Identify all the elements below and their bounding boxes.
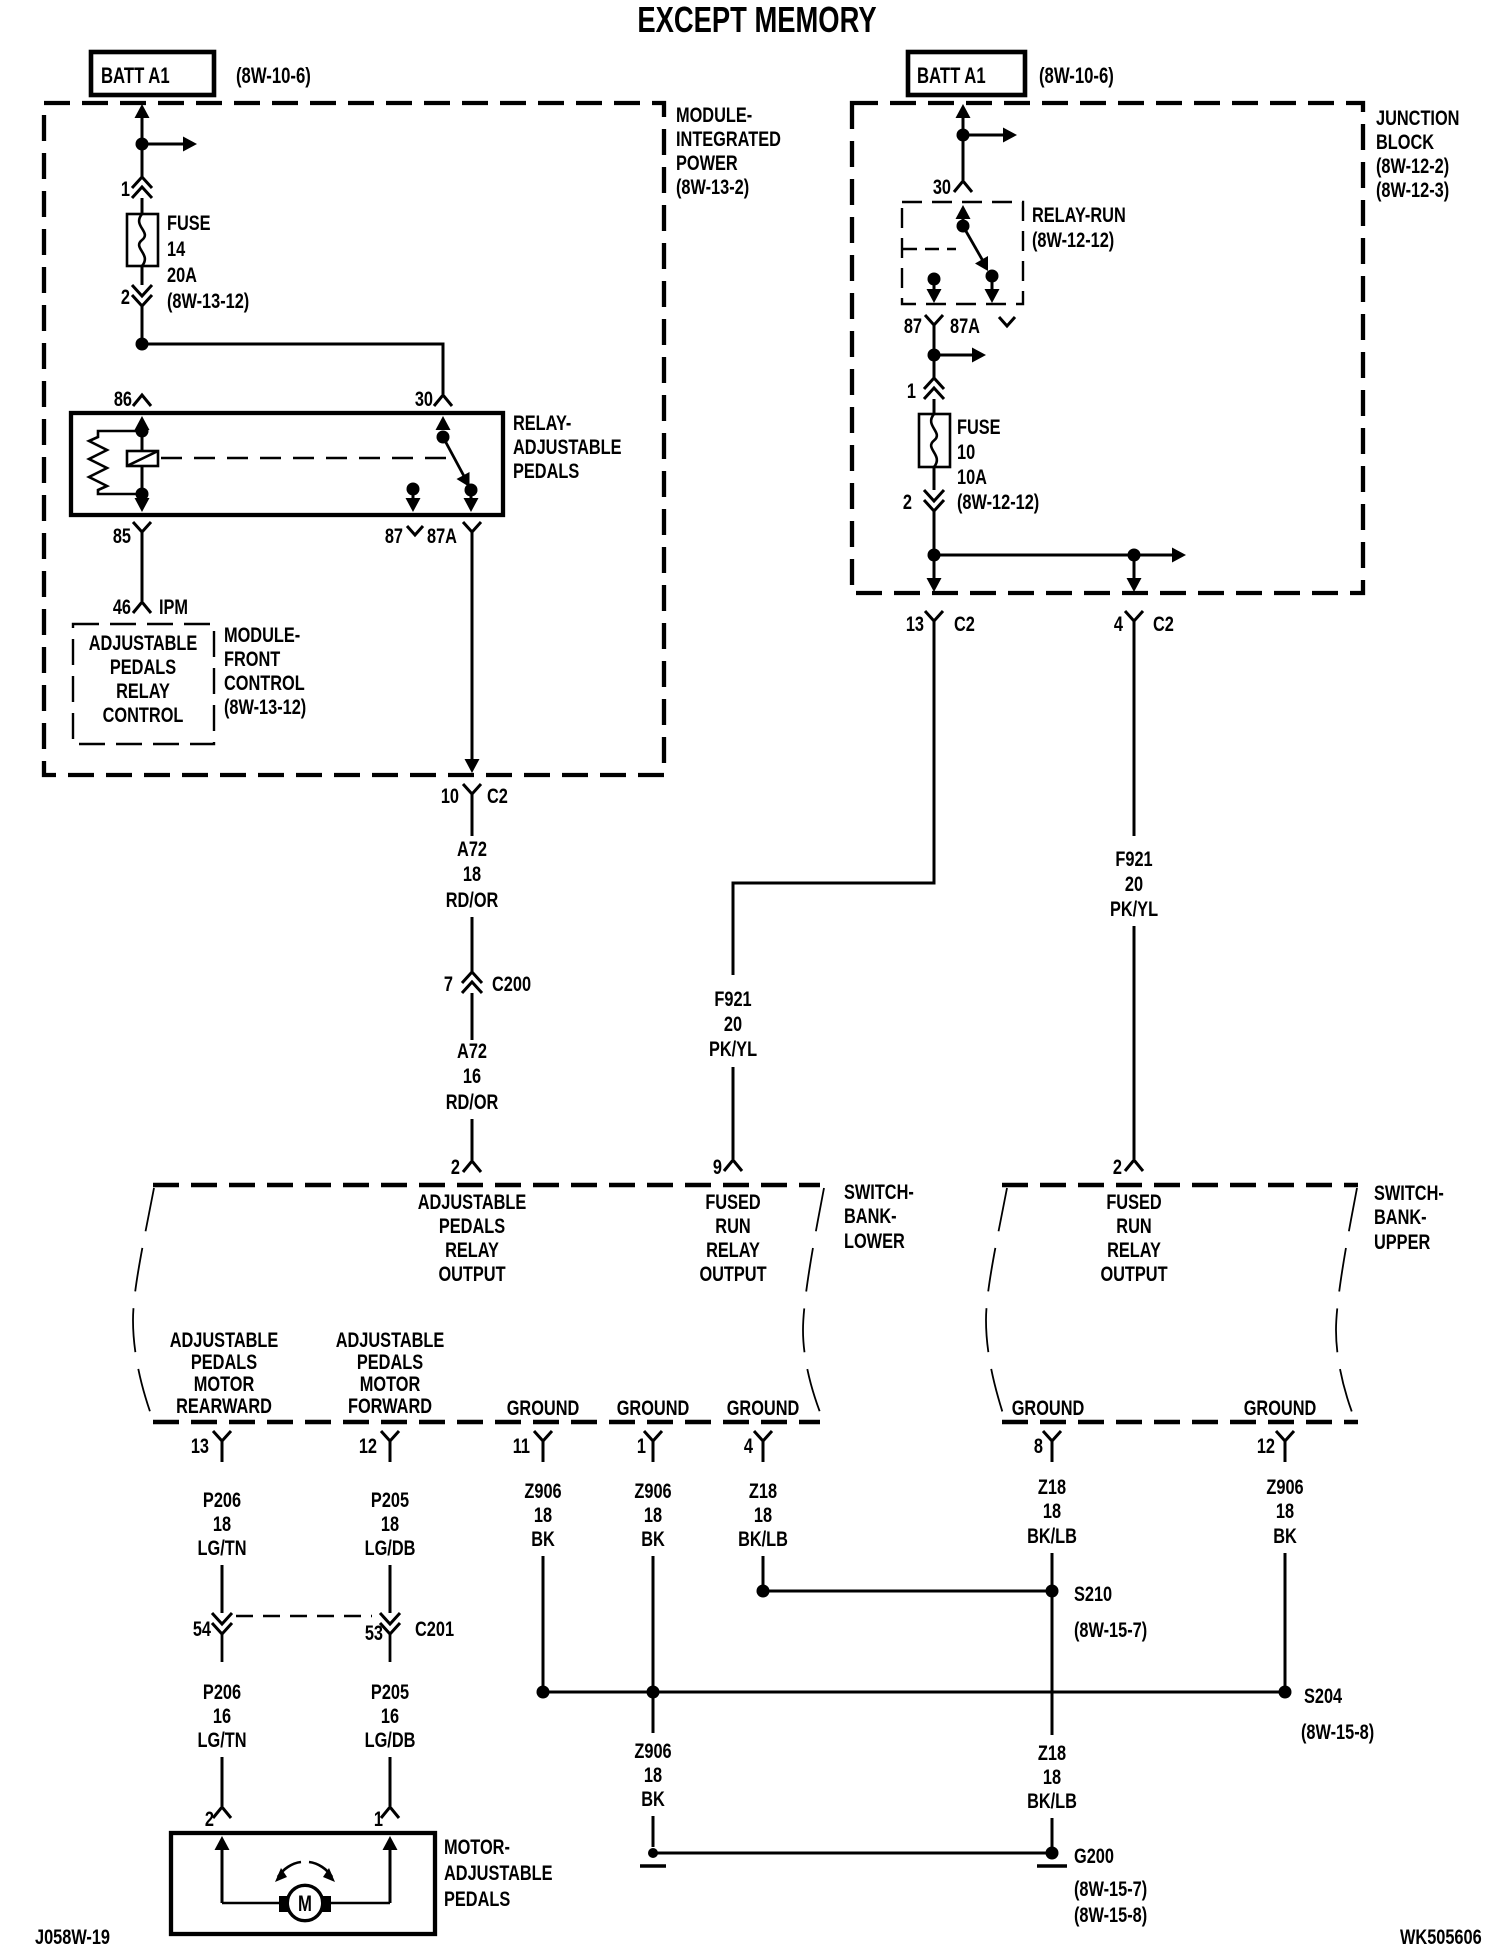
svg-text:53: 53 (365, 1622, 383, 1646)
relay pin 87 contact (407, 483, 420, 496)
svg-text:11: 11 (513, 1435, 531, 1459)
svg-text:16: 16 (463, 1065, 481, 1089)
arrow: feed continues right (1134, 554, 1173, 557)
svg-text:FUSED: FUSED (705, 1191, 760, 1215)
wire: battery feed A1 (right) with up arrow (956, 104, 971, 118)
arrow: feed continues right (fused run) (934, 354, 973, 357)
svg-text:(8W-12-3): (8W-12-3) (1376, 179, 1449, 203)
fuse 10 (JB) (919, 414, 950, 467)
svg-text:30: 30 (933, 176, 951, 200)
switch-bank-lower dashed box (153, 1183, 820, 1188)
svg-text:MOTOR: MOTOR (360, 1373, 421, 1397)
junction on right feed (957, 129, 970, 142)
svg-text:RELAY: RELAY (445, 1239, 499, 1263)
relay-run coil dashed stub (903, 248, 956, 250)
svg-text:BLOCK: BLOCK (1376, 131, 1434, 155)
svg-text:RELAY: RELAY (116, 680, 170, 704)
wire down with arrow (4 C2) (1133, 555, 1136, 579)
svg-text:BANK-: BANK- (1374, 1206, 1427, 1230)
svg-text:J058W-19: J058W-19 (35, 1926, 110, 1950)
svg-text:(8W-15-8): (8W-15-8) (1301, 1721, 1374, 1745)
svg-text:FRONT: FRONT (224, 648, 281, 672)
svg-text:87A: 87A (950, 315, 980, 339)
svg-text:30: 30 (415, 388, 433, 412)
svg-text:RD/OR: RD/OR (446, 1091, 499, 1115)
svg-text:2: 2 (205, 1808, 214, 1832)
svg-text:Z18: Z18 (749, 1480, 777, 1504)
svg-text:87: 87 (385, 525, 403, 549)
motor terminals (279, 1896, 288, 1912)
in-line connector 1 (JB fuse) (924, 378, 944, 389)
module-integrated power dashed box (44, 103, 664, 775)
svg-text:GROUND: GROUND (507, 1397, 580, 1421)
junction on left feed (136, 138, 149, 151)
svg-text:Z906: Z906 (634, 1480, 671, 1504)
svg-text:1: 1 (907, 380, 916, 404)
in-line connector 54 C201 (212, 1613, 232, 1624)
svg-text:1: 1 (121, 178, 130, 202)
svg-text:PK/YL: PK/YL (709, 1038, 757, 1062)
relay switch blade (443, 437, 465, 478)
svg-text:BK/LB: BK/LB (1027, 1525, 1077, 1549)
motor pin 1 arrow (383, 1836, 398, 1850)
pin 30 chevron (434, 395, 452, 406)
svg-text:(8W-12-12): (8W-12-12) (1032, 229, 1114, 253)
svg-text:(8W-10-6): (8W-10-6) (1039, 64, 1114, 89)
svg-text:13: 13 (906, 613, 924, 637)
svg-text:13: 13 (191, 1435, 209, 1459)
svg-text:MOTOR-: MOTOR- (444, 1836, 510, 1860)
pin 1 motor (381, 1807, 399, 1818)
svg-text:OUTPUT: OUTPUT (438, 1263, 505, 1287)
svg-text:2: 2 (903, 491, 912, 515)
svg-text:S204: S204 (1304, 1685, 1342, 1709)
arrow: feed continues right (963, 134, 1004, 137)
svg-text:FUSE: FUSE (167, 212, 211, 236)
switch-bank-upper dashed box (1002, 1183, 1358, 1188)
svg-text:ADJUSTABLE: ADJUSTABLE (444, 1862, 553, 1886)
svg-text:18: 18 (463, 863, 481, 887)
in-line connector 1 (IPM) (132, 177, 152, 188)
relay switch pin 30 (436, 416, 451, 430)
svg-text:18: 18 (1276, 1500, 1294, 1524)
svg-text:Z906: Z906 (634, 1740, 671, 1764)
svg-text:(8W-15-7): (8W-15-7) (1074, 1619, 1147, 1643)
svg-text:54: 54 (193, 1618, 211, 1642)
svg-text:LG/DB: LG/DB (365, 1537, 416, 1561)
svg-text:18: 18 (644, 1764, 662, 1788)
ground G200 line (653, 1852, 1052, 1855)
svg-text:ADJUSTABLE: ADJUSTABLE (170, 1329, 279, 1353)
wire F921 (13 C2 to switch-bank-lower pin 9) (733, 635, 934, 975)
wire 87A output down (471, 546, 474, 760)
svg-text:OUTPUT: OUTPUT (1100, 1263, 1167, 1287)
svg-text:BK: BK (641, 1788, 665, 1812)
svg-text:RELAY-RUN: RELAY-RUN (1032, 204, 1126, 228)
junction at 4 C2 drop (1128, 549, 1141, 562)
wire A72 16 RD/OR (471, 993, 474, 1040)
wire (141, 266, 144, 285)
svg-text:10: 10 (441, 785, 459, 809)
adjustable pedals relay control dashed box (73, 624, 214, 744)
svg-text:85: 85 (113, 525, 131, 549)
svg-text:IPM: IPM (159, 596, 188, 620)
svg-text:SWITCH-: SWITCH- (1374, 1182, 1444, 1206)
wires to motor (222, 1902, 281, 1905)
in-line connector 53 C201 (380, 1613, 400, 1624)
svg-text:18: 18 (644, 1504, 662, 1528)
svg-text:LG/DB: LG/DB (365, 1729, 416, 1753)
connector box BATT A1 (left) (91, 52, 214, 95)
svg-text:PEDALS: PEDALS (357, 1351, 423, 1375)
svg-text:(8W-15-7): (8W-15-7) (1074, 1878, 1147, 1902)
arrow: feed continues right (142, 143, 184, 146)
svg-text:LG/TN: LG/TN (198, 1729, 247, 1753)
svg-text:46: 46 (113, 596, 131, 620)
svg-text:Z18: Z18 (1038, 1476, 1066, 1500)
relay box RELAY-ADJUSTABLE PEDALS (71, 413, 503, 515)
svg-text:C200: C200 (492, 973, 531, 997)
svg-text:GROUND: GROUND (727, 1397, 800, 1421)
ground point G200 (1046, 1847, 1059, 1860)
svg-text:CONTROL: CONTROL (103, 704, 184, 728)
pin 2 switch-bank-upper (1125, 1160, 1143, 1171)
relay-run pin 87A (986, 270, 999, 283)
svg-text:PEDALS: PEDALS (444, 1888, 510, 1912)
svg-text:2: 2 (451, 1156, 460, 1180)
svg-text:8: 8 (1034, 1435, 1043, 1459)
svg-text:12: 12 (1257, 1435, 1275, 1459)
wire (141, 144, 144, 177)
svg-text:BATT A1: BATT A1 (101, 64, 170, 89)
in-line connector 7 C200 (462, 972, 482, 983)
svg-text:BK: BK (1273, 1525, 1297, 1549)
wire Z906 below S204 (652, 1692, 655, 1733)
svg-text:C2: C2 (487, 785, 508, 809)
svg-text:FORWARD: FORWARD (348, 1395, 432, 1419)
motor rotation arrows (278, 1862, 301, 1877)
svg-text:9: 9 (713, 1156, 722, 1180)
svg-text:ADJUSTABLE: ADJUSTABLE (418, 1191, 527, 1215)
svg-text:POWER: POWER (676, 152, 738, 176)
motor-adjustable pedals box (171, 1833, 435, 1934)
svg-text:(8W-12-12): (8W-12-12) (957, 491, 1039, 515)
svg-text:EXCEPT MEMORY: EXCEPT MEMORY (637, 0, 876, 40)
svg-text:RD/OR: RD/OR (446, 889, 499, 913)
svg-text:JUNCTION: JUNCTION (1376, 107, 1459, 131)
svg-text:18: 18 (754, 1504, 772, 1528)
splice S210 (763, 1590, 1052, 1593)
svg-text:BK/LB: BK/LB (1027, 1790, 1077, 1814)
junction to relay pins (136, 338, 149, 351)
svg-text:CONTROL: CONTROL (224, 672, 305, 696)
svg-text:BK/LB: BK/LB (738, 1528, 788, 1552)
svg-text:18: 18 (534, 1504, 552, 1528)
svg-text:S210: S210 (1074, 1583, 1112, 1607)
C201 dashed link (236, 1615, 372, 1617)
svg-text:GROUND: GROUND (617, 1397, 690, 1421)
wire (933, 467, 936, 490)
svg-text:7: 7 (444, 973, 453, 997)
svg-text:A72: A72 (457, 1040, 487, 1064)
svg-text:18: 18 (381, 1513, 399, 1537)
svg-text:WK505606: WK505606 (1400, 1926, 1482, 1950)
svg-text:14: 14 (167, 238, 185, 262)
svg-text:2: 2 (121, 286, 130, 310)
wire to pin 30 (142, 344, 443, 394)
svg-text:PEDALS: PEDALS (439, 1215, 505, 1239)
svg-text:FUSE: FUSE (957, 416, 1001, 440)
svg-text:1: 1 (374, 1808, 383, 1832)
svg-text:PEDALS: PEDALS (110, 656, 176, 680)
svg-text:20: 20 (724, 1013, 742, 1037)
svg-text:RUN: RUN (715, 1215, 750, 1239)
svg-text:20: 20 (1125, 873, 1143, 897)
pin 2 motor (213, 1807, 231, 1818)
wire F921 (4 C2 to switch-bank-upper pin 2) (1133, 635, 1136, 836)
svg-text:(8W-13-12): (8W-13-12) (167, 290, 249, 314)
relay pin 85 arrow (141, 494, 144, 499)
relay-run switch blade (963, 226, 983, 261)
relay-run dashed box (902, 202, 1023, 304)
svg-text:P206: P206 (203, 1489, 241, 1513)
wire across (934, 554, 1134, 557)
svg-text:GROUND: GROUND (1012, 1397, 1085, 1421)
wire (933, 399, 936, 414)
svg-text:87A: 87A (427, 525, 457, 549)
svg-text:INTEGRATED: INTEGRATED (676, 128, 781, 152)
junction fused run output (928, 549, 941, 562)
relay-run pin 30 arrow (956, 205, 971, 219)
svg-text:M: M (298, 1892, 312, 1917)
svg-text:PEDALS: PEDALS (191, 1351, 257, 1375)
wire A72 18 RD/OR (471, 808, 474, 836)
svg-text:(8W-15-8): (8W-15-8) (1074, 1904, 1147, 1928)
svg-text:ADJUSTABLE: ADJUSTABLE (89, 632, 198, 656)
svg-text:RELAY: RELAY (706, 1239, 760, 1263)
fuse 14 (IPM) (127, 214, 158, 266)
svg-text:1: 1 (637, 1435, 646, 1459)
motor M (287, 1885, 322, 1920)
splice S204 (543, 1691, 1285, 1694)
svg-text:SWITCH-: SWITCH- (844, 1181, 914, 1205)
svg-text:86: 86 (114, 388, 132, 412)
svg-text:OUTPUT: OUTPUT (699, 1263, 766, 1287)
svg-text:G200: G200 (1074, 1845, 1114, 1869)
relay coil element (127, 451, 158, 466)
svg-text:UPPER: UPPER (1374, 1231, 1430, 1255)
wire (962, 135, 965, 180)
svg-text:16: 16 (213, 1705, 231, 1729)
svg-text:A72: A72 (457, 838, 487, 862)
svg-text:(8W-13-2): (8W-13-2) (676, 176, 749, 200)
svg-text:10: 10 (957, 441, 975, 465)
svg-text:(8W-10-6): (8W-10-6) (236, 64, 311, 89)
wire Z18 below S210 (1051, 1591, 1054, 1735)
svg-text:Z18: Z18 (1038, 1742, 1066, 1766)
svg-text:ADJUSTABLE: ADJUSTABLE (513, 436, 622, 460)
svg-text:P205: P205 (371, 1681, 409, 1705)
svg-text:(8W-13-12): (8W-13-12) (224, 696, 306, 720)
svg-text:20A: 20A (167, 264, 197, 288)
svg-text:BK: BK (531, 1528, 555, 1552)
svg-text:Z906: Z906 (524, 1480, 561, 1504)
svg-text:GROUND: GROUND (1244, 1397, 1317, 1421)
ground point (Z906) (648, 1848, 658, 1858)
svg-text:BANK-: BANK- (844, 1205, 897, 1229)
svg-text:P206: P206 (203, 1681, 241, 1705)
svg-text:ADJUSTABLE: ADJUSTABLE (336, 1329, 445, 1353)
svg-text:16: 16 (381, 1705, 399, 1729)
svg-text:4: 4 (744, 1435, 753, 1459)
svg-text:C201: C201 (415, 1618, 454, 1642)
svg-text:4: 4 (1114, 613, 1123, 637)
svg-text:18: 18 (213, 1513, 231, 1537)
svg-text:PK/YL: PK/YL (1110, 898, 1158, 922)
svg-text:C2: C2 (1153, 613, 1174, 637)
svg-text:FUSED: FUSED (1106, 1191, 1161, 1215)
motor pin 2 arrow (215, 1836, 230, 1850)
junction block dashed box (852, 103, 1363, 593)
pin 86 chevron (133, 395, 151, 406)
svg-text:RELAY: RELAY (1107, 1239, 1161, 1263)
relay pin 87A contact (465, 484, 478, 497)
svg-text:18: 18 (1043, 1766, 1061, 1790)
svg-text:MODULE-: MODULE- (224, 624, 300, 648)
svg-text:LOWER: LOWER (844, 1230, 905, 1254)
pin 2 switch-bank-lower (463, 1161, 481, 1172)
svg-text:BK: BK (641, 1528, 665, 1552)
svg-text:PEDALS: PEDALS (513, 460, 579, 484)
svg-text:10A: 10A (957, 466, 987, 490)
relay coil branch pin 86 (135, 416, 150, 430)
pin 30 relay-run (954, 181, 972, 192)
relay-run pin 87 (928, 273, 941, 286)
wire 87 down (933, 339, 936, 355)
relay coil-to-switch dashed link (161, 457, 452, 460)
wire 85 to IPM pin 46 (141, 546, 144, 601)
pin 9 switch-bank-lower (724, 1160, 742, 1171)
svg-text:87: 87 (904, 315, 922, 339)
svg-text:REARWARD: REARWARD (176, 1395, 272, 1419)
svg-text:LG/TN: LG/TN (198, 1537, 247, 1561)
svg-text:BATT A1: BATT A1 (917, 64, 986, 89)
svg-text:RELAY-: RELAY- (513, 412, 571, 436)
relay coil resistor (89, 431, 142, 494)
svg-text:C2: C2 (954, 613, 975, 637)
svg-text:12: 12 (359, 1435, 377, 1459)
svg-text:2: 2 (1113, 1156, 1122, 1180)
wire: battery feed A1 (left) with up arrow (135, 104, 150, 118)
pin 46 IPM (133, 602, 151, 613)
svg-text:MOTOR: MOTOR (194, 1373, 255, 1397)
svg-text:Z906: Z906 (1266, 1476, 1303, 1500)
wire (933, 355, 936, 378)
connector box BATT A1 (right) (908, 52, 1025, 95)
svg-text:MODULE-: MODULE- (676, 104, 752, 128)
wire down with arrow (13 C2) (933, 555, 936, 579)
svg-text:RUN: RUN (1116, 1215, 1151, 1239)
svg-text:(8W-12-2): (8W-12-2) (1376, 155, 1449, 179)
svg-text:F921: F921 (714, 988, 752, 1012)
svg-text:F921: F921 (1115, 848, 1153, 872)
wire (141, 198, 144, 214)
svg-text:P205: P205 (371, 1489, 409, 1513)
in-line connector 2 (JB fuse) (924, 490, 944, 501)
svg-text:18: 18 (1043, 1500, 1061, 1524)
junction below relay-run (928, 349, 941, 362)
in-line connector 2 (IPM) (132, 285, 152, 296)
